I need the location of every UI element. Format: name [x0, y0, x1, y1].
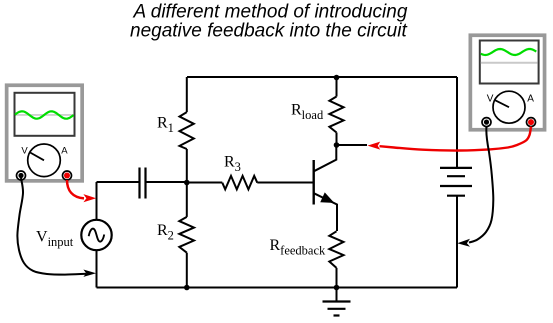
- junction dot R_load top: [334, 75, 340, 81]
- collector node junction dot: [334, 142, 340, 148]
- meter left needle: [30, 152, 44, 160]
- black probe wire right meter: [469, 127, 493, 243]
- wire R3 to transistor base: [257, 182, 313, 184]
- title text: [130, 1, 408, 41]
- meter left frame: [7, 85, 83, 181]
- svg-text:Rfeedback: Rfeedback: [270, 237, 327, 258]
- resistor R1: [180, 112, 194, 149]
- wire right branch lower (battery to bottom rail): [456, 196, 458, 288]
- source Vinput sine symbol: [89, 229, 105, 242]
- svg-text:negative feedback into the cir: negative feedback into the circuit: [130, 21, 407, 42]
- black probe wire left meter: [17, 178, 86, 275]
- svg-text:R2: R2: [157, 222, 174, 243]
- red probe wire left meter: [67, 180, 84, 198]
- meter right dial: [493, 91, 525, 123]
- meter right black terminal: [482, 118, 491, 127]
- resistor R2: [179, 217, 194, 253]
- junction dot R2 bottom: [184, 285, 190, 291]
- meter right needle: [495, 100, 509, 107]
- wire right branch upper (to battery): [456, 77, 458, 167]
- meter right screen: [480, 41, 539, 84]
- ground: [323, 288, 351, 316]
- svg-text:Rload: Rload: [291, 102, 324, 123]
- node A junction dot: [184, 180, 190, 186]
- svg-text:V: V: [487, 93, 494, 104]
- resistor Rfeedback: [329, 231, 343, 268]
- wire collector node stub right: [337, 144, 368, 146]
- wire node A to R3: [187, 182, 223, 184]
- transistor Q1 base bar: [313, 160, 315, 205]
- wire input to capacitor: [97, 181, 140, 183]
- red probe arrow right: [368, 142, 381, 150]
- wire R1 to node A: [186, 149, 188, 183]
- wire bottom rail: [97, 287, 458, 289]
- meter right screen centerline: [481, 62, 538, 64]
- transistor Q1 collector lead: [314, 145, 336, 171]
- wire R1 branch top: [186, 77, 188, 112]
- meter right frame: [470, 35, 544, 130]
- svg-text:A different method of introduc: A different method of introducing: [133, 1, 408, 22]
- meter left green trace: [15, 111, 74, 118]
- svg-text:V: V: [21, 146, 28, 157]
- meter left screen: [15, 93, 75, 136]
- wire R_load to collector node: [336, 133, 338, 146]
- transistor Q1 emitter arrow: [321, 193, 333, 202]
- meter left red terminal: [63, 171, 72, 180]
- svg-text:A: A: [61, 146, 68, 157]
- red probe arrow left: [83, 194, 96, 202]
- wire node A to R2: [186, 183, 188, 217]
- svg-text:A: A: [527, 93, 534, 104]
- meter left black terminal: [17, 171, 26, 180]
- svg-text:R3: R3: [224, 153, 241, 174]
- wire left branch lower (source to bottom rail): [96, 250, 98, 288]
- resistor R3: [222, 176, 257, 190]
- wire R_feedback to bottom rail: [336, 268, 338, 288]
- meter left dial: [28, 144, 61, 177]
- source Vinput circle: [81, 220, 111, 250]
- capacitor: [140, 168, 146, 199]
- battery B1: [440, 168, 472, 196]
- wire top rail: [187, 76, 457, 78]
- meter right green trace: [481, 49, 537, 55]
- wire R2 to bottom rail: [186, 253, 188, 288]
- transistor Q1 emitter lead: [314, 193, 337, 231]
- svg-text:Vinput: Vinput: [36, 228, 74, 249]
- meter right red terminal: [527, 118, 536, 127]
- wire R_load branch top: [336, 77, 338, 97]
- resistor Rload: [329, 97, 343, 133]
- red probe wire right meter: [380, 127, 532, 151]
- ground node junction dot: [334, 285, 340, 291]
- svg-text:R1: R1: [157, 115, 174, 136]
- black probe arrow left: [83, 270, 96, 277]
- wire capacitor to node A: [146, 181, 187, 183]
- black probe arrow right: [457, 239, 470, 247]
- meter left screen centerline: [16, 114, 74, 116]
- wire left branch upper (top corner to source): [96, 182, 98, 220]
